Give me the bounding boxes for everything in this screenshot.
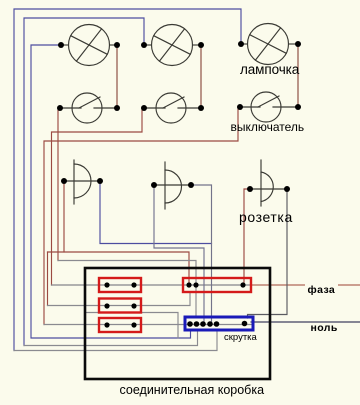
wire lamp1 right to switch1 right [116, 45, 118, 108]
node block D dot3 [240, 282, 245, 287]
wire row B through block B to under block D [48, 292, 191, 306]
node twist dot3 [200, 321, 206, 327]
node block B dot2 [131, 303, 136, 308]
node twist dot1 [187, 321, 193, 327]
node socket1 left [61, 178, 67, 184]
wire socket1 right down and over [100, 181, 212, 244]
wire neutral bus2 top (to lamp2) [24, 18, 144, 346]
node block A dot1 [104, 282, 109, 287]
wire neutral bus2 bottom run to twist dot2 [24, 330, 198, 346]
node socket2 right [188, 182, 194, 188]
wire neutral bus1 bottom run to twist dot5 [14, 330, 217, 351]
wire row C through block C and twist row [44, 324, 251, 326]
terminal block C [99, 318, 141, 332]
wire nol line to right edge [251, 321, 360, 323]
terminal block A [99, 278, 141, 292]
wire socket1 left down to block D dot1 [63, 181, 65, 252]
socket X1 [64, 160, 100, 204]
node lamp1 right [114, 42, 120, 48]
node twist dot4 [207, 321, 213, 327]
wire red jog to block D dot1 [48, 252, 190, 285]
node socket3 right [284, 186, 290, 192]
wire lamp3 right to switch3 right [297, 44, 299, 107]
label rozetka [239, 209, 293, 225]
node block C dot2 [131, 322, 136, 327]
switch S3 vyklyuchatel [240, 92, 298, 122]
wire faza line to right edge [251, 284, 360, 286]
wire jog inside box to bottom line [86, 313, 178, 339]
terminal block D phase [183, 278, 251, 292]
wire switch3 left jog down to row C [44, 107, 240, 325]
wire switch2 left jog down to phase row A [52, 108, 145, 285]
node lamp3 right [295, 41, 301, 47]
wire socket3 right down to twist right dot [248, 189, 288, 318]
wire phase row A through blocks [52, 284, 252, 286]
node switch2 right [198, 105, 204, 111]
label vyklyuchatel [231, 120, 305, 134]
lamp L1 [61, 25, 117, 66]
node block B dot1 [104, 303, 109, 308]
junction box [85, 268, 270, 379]
node block D dot1 [186, 282, 191, 287]
socket X2 [154, 162, 191, 209]
label nol [311, 322, 338, 334]
node switch3 left [237, 104, 243, 110]
node lamp2 left [141, 42, 147, 48]
node twist dot5 [214, 321, 220, 327]
node switch1 right [114, 105, 120, 111]
node socket1 right [97, 178, 103, 184]
wire lamp2 right to switch2 right [200, 45, 202, 108]
wire row B feed [47, 252, 49, 306]
node twist right dot [242, 321, 248, 327]
wire socket2 left jog down to twist dot3 [154, 185, 204, 325]
wire socket2 right down to twist dot4 [191, 185, 212, 325]
node lamp2 right [198, 42, 204, 48]
socket X3 rozetka [250, 160, 287, 206]
node switch2 left [141, 105, 147, 111]
node socket3 left [247, 186, 253, 192]
lamp L3 lampochka [241, 24, 298, 65]
node block D dot2 [193, 282, 198, 287]
twist block E neutral [185, 317, 253, 330]
label faza [305, 284, 339, 296]
label skrutka [224, 332, 257, 343]
node twist dot2 [194, 321, 200, 327]
node switch3 right [295, 104, 301, 110]
wire lamp1 left to twist dot1 [31, 45, 191, 338]
wire neutral bus1 top (to lamp3) [14, 9, 241, 351]
wire gray branch to block D dot2 [58, 261, 196, 318]
node block A dot2 [131, 282, 136, 287]
node lamp1 left [58, 42, 64, 48]
label lampochka [240, 62, 299, 77]
wire socket3 left down to block D dot3 [244, 189, 250, 285]
node socket2 left [151, 182, 157, 188]
terminal block B [99, 299, 141, 313]
node block C dot1 [104, 322, 109, 327]
lamp L2 [144, 25, 201, 66]
switch S2 [144, 93, 201, 123]
node switch1 left [57, 105, 63, 111]
node lamp3 left [238, 41, 244, 47]
switch S1 [60, 93, 117, 123]
wire switch1 left down to node [57, 110, 59, 261]
label soyedinitelnaya korobka [120, 383, 265, 397]
